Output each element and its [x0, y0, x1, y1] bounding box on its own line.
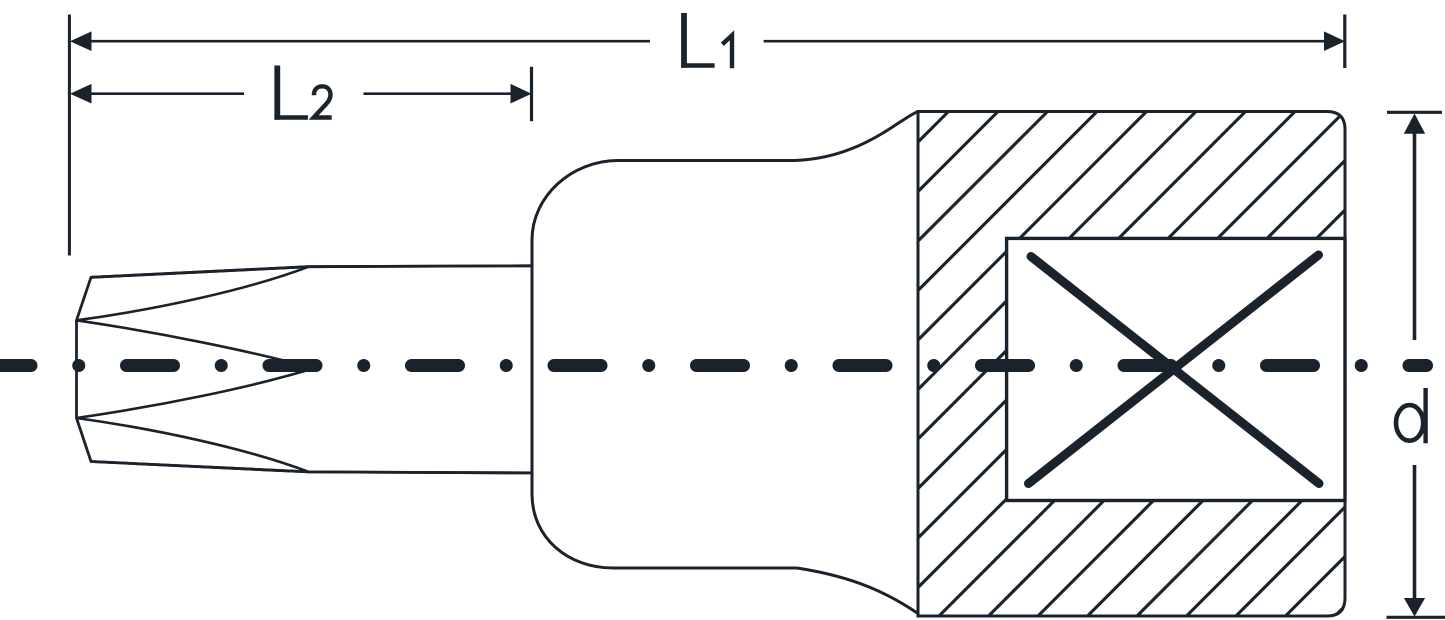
torx bit outline (tip, left face and tapered edges) [77, 266, 533, 473]
collar bottom edge and neck curve to body [613, 568, 918, 614]
dimension d bottom tick [1387, 616, 1445, 619]
dimension d bottom arrowhead [1404, 598, 1425, 617]
dimension L2 line right segment [364, 92, 513, 95]
label L1 : letter L [681, 13, 687, 68]
dimension d top arrowhead [1404, 114, 1425, 134]
dimension L1 line right segment [764, 40, 1326, 43]
torx flute curve upper [77, 267, 309, 321]
extension line left (tip datum) [68, 15, 71, 256]
label L1 : subscript 1 [722, 35, 732, 68]
label L2 : letter L [274, 66, 280, 120]
torx flute curve mid-lower [77, 368, 315, 418]
label d : bowl [1396, 405, 1423, 441]
collar top edge and neck curve to body [618, 112, 918, 161]
dimension L2 left arrowhead [70, 84, 92, 104]
dimension d line lower segment [1413, 465, 1417, 614]
dimension L1 right arrowhead [1324, 31, 1345, 51]
socket body outline (hatched section) [918, 112, 1345, 617]
cross X diagonal 2 [1031, 257, 1319, 484]
torx flute curve mid-upper [77, 320, 315, 368]
centerline (dash-dot axis) [0, 359, 1427, 372]
square drive opening [1007, 238, 1345, 500]
label d : stem [1423, 388, 1427, 443]
dimension L2 right tick [530, 67, 533, 121]
dimension L1 right tick [1343, 15, 1346, 69]
dimension d line upper segment [1413, 133, 1417, 340]
label L2 : subscript 2 [314, 86, 332, 117]
torx flute curve lower [77, 418, 309, 472]
cross X diagonal 1 [1029, 255, 1319, 484]
dimension d top tick [1387, 111, 1442, 114]
collar left edge and rounded shoulders [532, 161, 618, 569]
dimension L2 right arrowhead [511, 84, 532, 104]
dimension L1 line left segment [90, 40, 650, 43]
dimension L1 left arrowhead [70, 31, 92, 51]
dimension L2 line left segment [90, 92, 244, 95]
